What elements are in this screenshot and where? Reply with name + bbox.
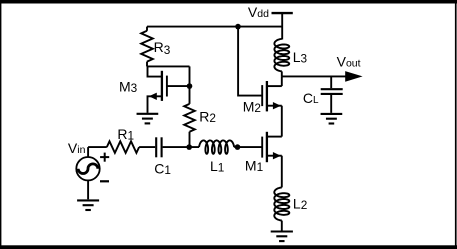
power symbol Vdd bar xyxy=(272,12,293,14)
svg-text:L3: L3 xyxy=(293,49,308,66)
svg-text:M2: M2 xyxy=(243,99,261,116)
svg-text:L2: L2 xyxy=(293,195,307,212)
frame right xyxy=(455,0,457,249)
inductor L3 xyxy=(274,39,289,72)
ground under M3 xyxy=(137,113,159,115)
arrow Vout xyxy=(345,71,362,82)
arrow M3 source (NMOS, mirrored) xyxy=(149,93,157,100)
wire M1 source to L2 xyxy=(281,156,283,188)
wire R1 to C1 xyxy=(139,146,155,148)
wire node A horizontal xyxy=(147,65,190,67)
wire CL to ground xyxy=(330,95,332,113)
node dot C1-R2-L1 junction xyxy=(186,144,192,150)
resistor R1 xyxy=(107,141,139,153)
transistor M3 (mirrored NMOS, diode-connected) xyxy=(148,71,190,113)
svg-text:L1: L1 xyxy=(210,158,224,175)
plus sign xyxy=(100,153,109,162)
wire L1 to M1 gate xyxy=(234,146,262,148)
source Vin circle xyxy=(76,157,99,180)
minus sign xyxy=(100,180,109,182)
wire M2 drain up xyxy=(281,76,283,86)
svg-text:C1: C1 xyxy=(154,161,171,178)
node dot L1-M1 gate junction xyxy=(235,144,241,150)
capacitor C1 xyxy=(156,137,161,157)
svg-text:R2: R2 xyxy=(199,109,216,126)
arrow M1 source (NMOS) xyxy=(273,152,281,159)
wire M2 gate bias xyxy=(238,27,262,96)
wire CL stub xyxy=(330,76,332,88)
svg-text:R1: R1 xyxy=(117,126,134,143)
ground under Vin xyxy=(77,199,99,201)
wire Vdd stub xyxy=(281,13,283,39)
wire top rail Vdd node xyxy=(147,26,282,28)
resistor R2 xyxy=(184,86,195,147)
wire Vin stem xyxy=(87,147,89,157)
ground under L2 xyxy=(271,230,293,232)
inductor L1 xyxy=(199,140,234,153)
arrow M2 source (NMOS) xyxy=(273,102,281,109)
wire output to arrow xyxy=(282,75,346,77)
wire Vin to R1 xyxy=(88,146,107,148)
sine symbol xyxy=(78,164,98,174)
transistor M1 xyxy=(262,132,282,162)
node dot top rail / M2 bias tap xyxy=(235,24,241,30)
wire node A to gate node B xyxy=(189,66,191,86)
frame bottom xyxy=(0,245,457,249)
wire M3 drain connector xyxy=(148,66,162,76)
inductor L2 xyxy=(274,187,289,220)
wire Vin to ground xyxy=(87,180,89,199)
svg-text:M3: M3 xyxy=(119,79,138,96)
wire C1 to L1 xyxy=(163,146,199,148)
svg-text:M1: M1 xyxy=(245,158,263,175)
wire L3 to output node xyxy=(281,71,283,76)
wire M1 drain to M2 source xyxy=(281,106,283,137)
node dot M3 gate / R2 top xyxy=(187,83,193,89)
frame left xyxy=(0,0,1,249)
wire L2 to ground xyxy=(281,221,283,231)
frame top xyxy=(0,0,457,4)
transistor M2 xyxy=(262,81,282,111)
capacitor CL xyxy=(321,89,343,94)
ground under CL xyxy=(321,113,343,115)
resistor R3 xyxy=(141,27,153,67)
